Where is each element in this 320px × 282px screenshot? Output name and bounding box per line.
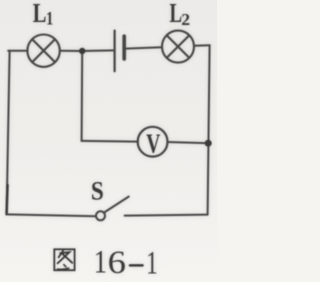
caption hanzi tu dot (64, 265, 66, 267)
battery long plate (113, 31, 115, 72)
battery short plate (122, 36, 126, 59)
wire top-left horizontal (8, 50, 27, 52)
wire left vertical lower darker segment (5, 185, 9, 214)
svg-text:S: S (91, 175, 104, 205)
wire bottom-left horizontal (7, 214, 97, 216)
wire junction to battery (82, 49, 114, 52)
wire junction down to voltmeter branch (81, 51, 84, 141)
lamp L1 circle (27, 35, 59, 67)
caption dash (129, 264, 144, 267)
caption hanzi tu stroke horizontal-fold (58, 252, 70, 263)
svg-text:1: 1 (146, 246, 157, 282)
svg-text:L: L (33, 0, 47, 28)
wire top-right corner horizontal (194, 44, 209, 46)
caption hanzi tu stroke na (62, 253, 72, 262)
wire voltmeter branch horizontal (82, 140, 138, 143)
wire voltmeter to right node (168, 142, 207, 143)
voltmeter V circle (138, 127, 168, 157)
switch S pivot circle (96, 211, 105, 220)
lamp L1 cross (32, 39, 55, 62)
wire L1 to junction (60, 50, 82, 52)
wire battery to L2 (125, 47, 162, 48)
caption hanzi tu stroke pie (59, 251, 64, 257)
wire left vertical (7, 51, 10, 215)
svg-text:2: 2 (181, 10, 190, 29)
lamp L2 circle (162, 31, 194, 63)
svg-text:L: L (170, 0, 183, 28)
lamp L2 cross (167, 35, 189, 57)
caption hanzi tu box (54, 249, 74, 270)
caption hanzi tu bottom dot-curl (58, 268, 69, 269)
wire right vertical (208, 45, 210, 214)
scan ink bleed halo (7, 0, 212, 282)
junction node dot left (79, 48, 85, 54)
junction node dot right (205, 140, 212, 147)
svg-text:1: 1 (46, 9, 53, 29)
svg-text:1: 1 (94, 245, 107, 281)
svg-text:V: V (146, 128, 160, 158)
svg-text:6: 6 (108, 245, 126, 281)
switch S blade (104, 197, 128, 213)
wire bottom-right horizontal (125, 215, 208, 216)
